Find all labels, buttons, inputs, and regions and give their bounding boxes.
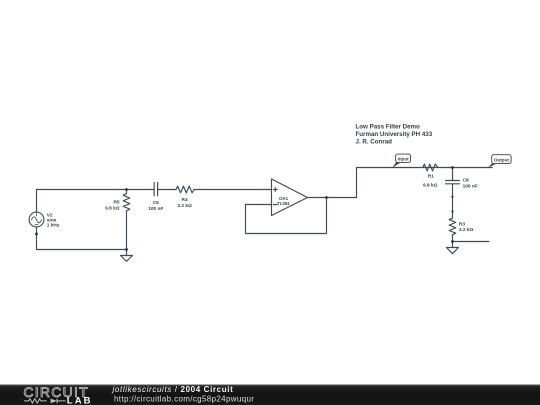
svg-text:jotlikescircuits / 2004 Circui: jotlikescircuits / 2004 Circuit	[112, 385, 234, 394]
svg-text:9.8 kΩ: 9.8 kΩ	[105, 205, 120, 211]
svg-text:100 nF: 100 nF	[148, 206, 163, 212]
svg-text:Low Pass Filter Demo: Low Pass Filter Demo	[356, 124, 421, 131]
svg-text:100 nF: 100 nF	[463, 184, 478, 190]
svg-text:R1: R1	[428, 173, 434, 179]
svg-text:9.8 kΩ: 9.8 kΩ	[423, 182, 438, 188]
svg-text:C8: C8	[463, 177, 469, 183]
svg-text:C5: C5	[153, 200, 159, 206]
svg-text:Input: Input	[397, 157, 409, 162]
svg-text:Furman University PH 433: Furman University PH 433	[356, 131, 433, 138]
svg-text:R3: R3	[459, 222, 465, 228]
svg-text:3.2 kΩ: 3.2 kΩ	[459, 227, 474, 233]
svg-text:1 kHz: 1 kHz	[47, 223, 60, 229]
svg-text:3.2 kΩ: 3.2 kΩ	[177, 203, 192, 209]
svg-text:R4: R4	[182, 197, 188, 203]
svg-text:LAB: LAB	[67, 396, 93, 405]
svg-text:R5: R5	[113, 199, 119, 205]
svg-text:Output: Output	[494, 157, 510, 162]
svg-text:J. R. Conrad: J. R. Conrad	[356, 139, 393, 146]
svg-text:TL081: TL081	[277, 201, 290, 206]
svg-text:http://circuitlab.com/cg58p24p: http://circuitlab.com/cg58p24pwuqur	[114, 395, 254, 404]
